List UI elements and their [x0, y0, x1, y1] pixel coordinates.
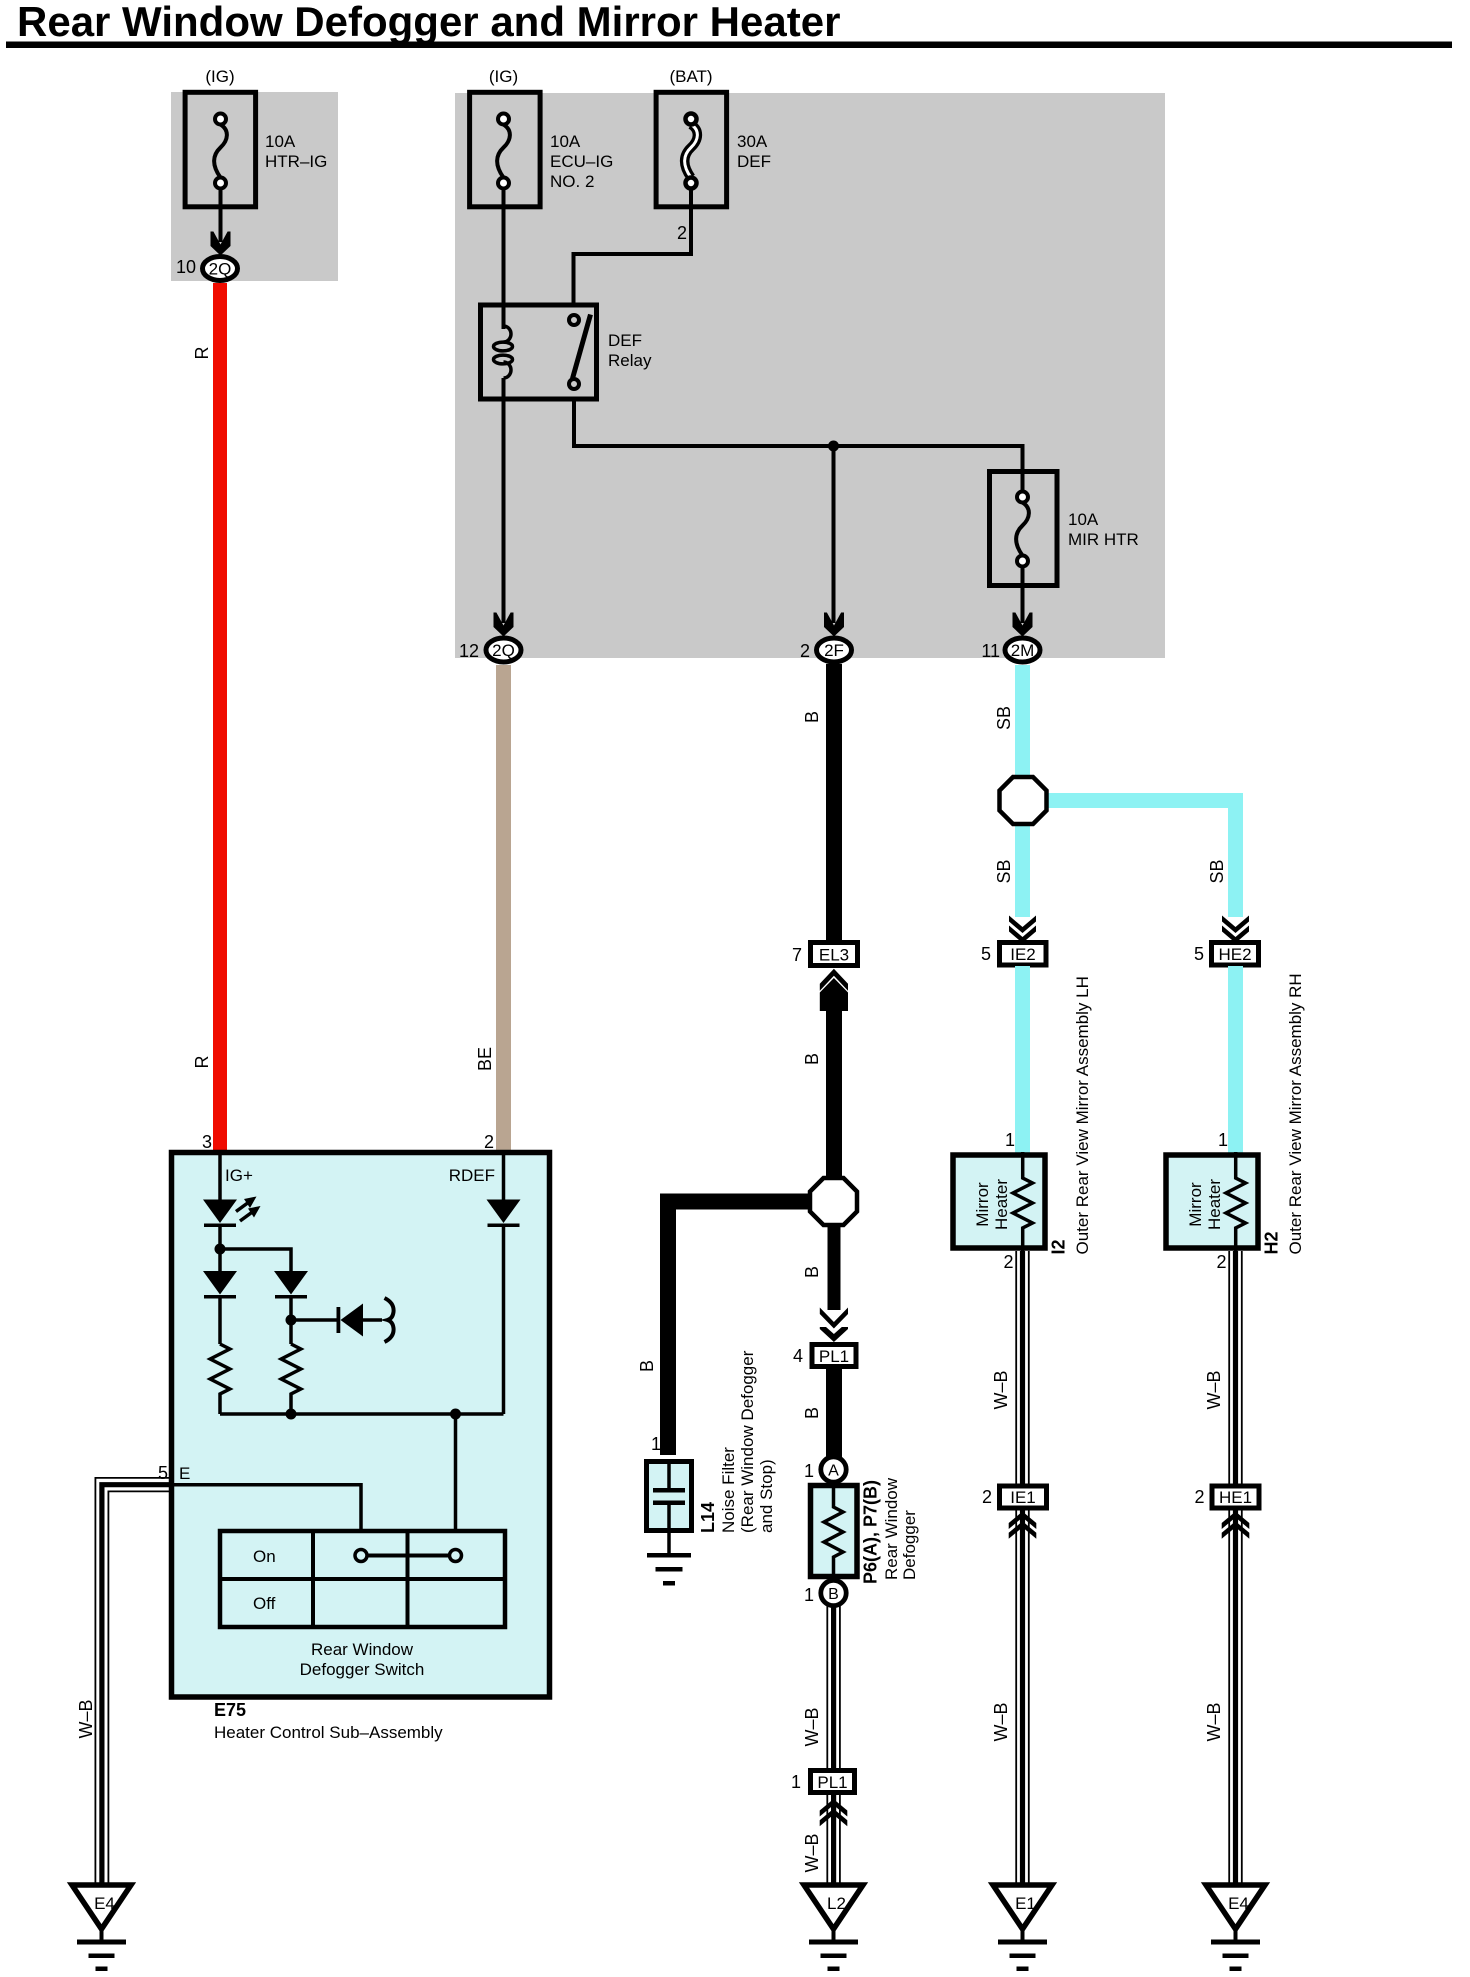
label Rear Window Defogger Switch: [300, 1640, 425, 1679]
svg-text:Defogger: Defogger: [900, 1510, 919, 1580]
svg-text:IE2: IE2: [1010, 945, 1036, 964]
svg-text:SB: SB: [1207, 859, 1227, 883]
wire W-B mirror RH to HE1: [1229, 1251, 1242, 1484]
svg-text:HE1: HE1: [1219, 1488, 1252, 1507]
label E75: [214, 1700, 246, 1720]
svg-text:10A: 10A: [550, 132, 581, 151]
svg-text:4: 4: [793, 1346, 803, 1366]
svg-text:Rear Window: Rear Window: [311, 1640, 414, 1659]
noise filter L14 box: [647, 1459, 692, 1533]
svg-text:I2: I2: [1049, 1239, 1069, 1254]
svg-text:Rear Window Defogger and Mirro: Rear Window Defogger and Mirror Heater: [17, 0, 840, 45]
svg-text:1: 1: [1005, 1130, 1015, 1150]
svg-text:E: E: [179, 1464, 190, 1483]
label SB (above HE2): [1207, 859, 1227, 883]
svg-text:Heater: Heater: [992, 1179, 1011, 1230]
svg-text:E4: E4: [1228, 1894, 1249, 1913]
fuse 30A DEF: [656, 67, 771, 207]
svg-text:B: B: [802, 1407, 822, 1419]
svg-text:SB: SB: [994, 706, 1014, 730]
svg-text:W–B: W–B: [991, 1370, 1011, 1409]
wire relay switch to bus: [574, 401, 1023, 469]
svg-text:Off: Off: [253, 1594, 276, 1613]
svg-text:E1: E1: [1015, 1894, 1036, 1913]
svg-text:RDEF: RDEF: [449, 1166, 495, 1185]
svg-text:2: 2: [484, 1132, 494, 1152]
svg-text:L2: L2: [827, 1894, 846, 1913]
connector PL1 pin 1: [791, 1771, 855, 1793]
label Noise Filter rotated: [719, 1350, 776, 1533]
svg-text:10A: 10A: [265, 132, 296, 151]
svg-text:BE: BE: [475, 1047, 495, 1071]
wire SB IE2 to mirror heater LH: [1005, 966, 1030, 1153]
ground E1: [993, 1885, 1052, 1971]
ground E4 left: [72, 1885, 131, 1971]
svg-text:(Rear Window Defogger: (Rear Window Defogger: [738, 1350, 757, 1533]
junction dot at 2F branch: [828, 441, 839, 452]
heater control E75 box: [172, 1153, 550, 1698]
label L14 rotated: [698, 1502, 718, 1533]
svg-text:2M: 2M: [1011, 641, 1035, 660]
wire SB 2M to splice: [1015, 665, 1030, 778]
label W-B (above E4 right): [1204, 1702, 1224, 1741]
diode 2: [203, 1271, 237, 1344]
svg-text:2: 2: [982, 1487, 992, 1507]
mirror heater LH box: [953, 1152, 1045, 1251]
svg-text:H2: H2: [1262, 1231, 1282, 1254]
label B (above splice): [802, 1053, 822, 1065]
pin 2 label mirror RH: [1216, 1252, 1226, 1272]
connector HE1 pin 2: [1194, 1486, 1259, 1508]
svg-text:On: On: [253, 1547, 276, 1566]
label W-B (above L2): [802, 1833, 822, 1872]
svg-text:(IG): (IG): [205, 67, 234, 86]
connector IE2 pin 5: [981, 943, 1046, 966]
svg-text:2F: 2F: [824, 641, 844, 660]
svg-text:2Q: 2Q: [209, 260, 232, 279]
arrow up below IE1: [1009, 1512, 1037, 1539]
svg-text:W–B: W–B: [1204, 1702, 1224, 1741]
pin 3 label E75: [202, 1132, 212, 1152]
connector 2Q pin 12: [459, 638, 521, 662]
svg-text:DEF: DEF: [737, 152, 771, 171]
label B (above terminal A): [802, 1407, 822, 1419]
wire W-B IE1 to ground E1: [1016, 1511, 1029, 1886]
svg-text:W–B: W–B: [1204, 1370, 1224, 1409]
svg-text:W–B: W–B: [991, 1702, 1011, 1741]
wire B thick splice to PL1: [828, 1225, 841, 1310]
arrow down into IE2: [1009, 916, 1036, 944]
label Rear Window Defogger rotated: [882, 1477, 919, 1580]
fuse 10A MIR HTR: [990, 469, 1139, 586]
svg-text:Outer Rear View Mirror Assembl: Outer Rear View Mirror Assembly RH: [1286, 973, 1305, 1254]
svg-text:Defogger Switch: Defogger Switch: [300, 1660, 425, 1679]
svg-text:ECU–IG: ECU–IG: [550, 152, 613, 171]
svg-text:1: 1: [1218, 1130, 1228, 1150]
wire B thick PL1 to terminal A: [826, 1369, 842, 1460]
fuse 10A ECU-IG NO.2: [470, 67, 614, 207]
label B (above EL3): [802, 711, 822, 723]
svg-text:3: 3: [202, 1132, 212, 1152]
label SB (above IE2): [994, 859, 1014, 883]
svg-text:30A: 30A: [737, 132, 768, 151]
wire ECU-IG fuse to relay coil: [502, 189, 506, 330]
svg-text:(BAT): (BAT): [669, 67, 712, 86]
svg-text:PL1: PL1: [819, 1347, 849, 1366]
svg-text:2Q: 2Q: [492, 641, 515, 660]
svg-text:5: 5: [981, 944, 991, 964]
svg-text:PL1: PL1: [817, 1773, 847, 1792]
label Outer Rear View Mirror Assembly LH: [1073, 976, 1092, 1254]
svg-text:NO. 2: NO. 2: [550, 172, 594, 191]
svg-text:W–B: W–B: [802, 1707, 822, 1746]
ground (noise filter): [647, 1533, 691, 1586]
switch table: [220, 1531, 505, 1627]
svg-text:10A: 10A: [1068, 510, 1099, 529]
svg-text:HTR–IG: HTR–IG: [265, 152, 327, 171]
label BE: [475, 1047, 495, 1071]
svg-text:1: 1: [804, 1461, 814, 1481]
svg-text:A: A: [828, 1463, 839, 1480]
title: [6, 0, 1452, 48]
svg-text:1: 1: [791, 1772, 801, 1792]
junction block shade big: [455, 93, 1165, 658]
svg-text:1: 1: [651, 1434, 661, 1454]
wire R (red): [213, 283, 227, 1153]
svg-text:(IG): (IG): [489, 67, 518, 86]
connector HE2 pin 5: [1194, 943, 1259, 966]
ground L2: [804, 1885, 863, 1971]
svg-text:P6(A), P7(B): P6(A), P7(B): [861, 1480, 881, 1584]
svg-text:MIR HTR: MIR HTR: [1068, 530, 1139, 549]
wire relay coil to 2Q pin 12: [494, 378, 514, 637]
svg-text:IE1: IE1: [1010, 1488, 1036, 1507]
connector 2F pin 2: [800, 638, 852, 662]
svg-text:Outer Rear View Mirror Assembl: Outer Rear View Mirror Assembly LH: [1073, 976, 1092, 1254]
splice octagon (black wire): [810, 1178, 857, 1225]
resistor 1 (E75): [210, 1344, 230, 1414]
wire W-B E75 to ground E4 left: [95, 1478, 171, 1885]
svg-text:1: 1: [804, 1585, 814, 1605]
svg-text:and Stop): and Stop): [757, 1459, 776, 1533]
resistor 2 (E75): [281, 1344, 301, 1414]
label P6(A), P7(B) rotated: [861, 1480, 881, 1584]
label R lower: [192, 1056, 212, 1069]
arrow up below PL1: [820, 1799, 848, 1826]
wire DEF fuse to relay: [574, 189, 692, 304]
pin 1 label L14: [651, 1434, 661, 1454]
svg-text:Mirror: Mirror: [973, 1182, 992, 1227]
wire W-B PL1 to ground L2: [827, 1795, 840, 1885]
svg-text:12: 12: [459, 641, 479, 661]
connector 2Q pin 10: [176, 257, 238, 281]
connector EL3 pin 7: [792, 943, 858, 966]
wire fuse HTR-IG to 2Q: [211, 189, 231, 256]
label Outer Rear View Mirror Assembly RH: [1286, 973, 1305, 1254]
svg-text:E4: E4: [94, 1894, 115, 1913]
bottom rail E75: [220, 1409, 504, 1532]
pin E wire internal: [158, 1463, 361, 1531]
svg-text:E75: E75: [214, 1700, 246, 1720]
svg-text:11: 11: [981, 641, 1000, 661]
wire B thick 2F to EL3: [826, 664, 842, 940]
rear window defogger element P6/P7: [811, 1482, 858, 1581]
label I2 rotated: [1049, 1239, 1069, 1254]
svg-text:2: 2: [1003, 1252, 1013, 1272]
svg-text:Heater Control Sub–Assembly: Heater Control Sub–Assembly: [214, 1723, 443, 1742]
junction dot diode 3: [286, 1315, 338, 1326]
svg-text:SB: SB: [994, 859, 1014, 883]
svg-text:5: 5: [1194, 944, 1204, 964]
connector 2M pin 11: [981, 638, 1040, 662]
wire BE (beige): [496, 665, 511, 1153]
mirror heater RH box: [1166, 1152, 1258, 1251]
wire SB HE2 to mirror heater RH: [1218, 966, 1243, 1153]
junction dot LED: [215, 1244, 292, 1272]
ground E4 right: [1206, 1885, 1265, 1971]
svg-text:Rear Window: Rear Window: [882, 1477, 901, 1580]
label W-B (E75 ground): [76, 1699, 96, 1738]
svg-text:Heater: Heater: [1205, 1179, 1224, 1230]
svg-text:B: B: [802, 1266, 822, 1278]
arrow down into HE2: [1222, 916, 1249, 944]
wire W-B mirror LH to IE1: [1016, 1251, 1029, 1484]
svg-text:W–B: W–B: [76, 1699, 96, 1738]
arrow up below HE1: [1222, 1512, 1250, 1539]
label Heater Control Sub-Assembly: [214, 1723, 443, 1742]
svg-text:EL3: EL3: [819, 946, 849, 965]
label W-B (above PL1 lower): [802, 1707, 822, 1746]
svg-text:IG+: IG+: [225, 1166, 253, 1185]
diode 4 (horizontal with curve): [337, 1298, 394, 1342]
svg-text:B: B: [637, 1360, 657, 1372]
diode 3: [274, 1271, 308, 1344]
label W-B (above IE1): [991, 1370, 1011, 1409]
wire MIR HTR fuse to 2M: [1013, 567, 1033, 637]
wire W-B HE1 to ground E4: [1229, 1511, 1242, 1886]
relay DEF: [481, 305, 652, 399]
pin 2 label mirror LH: [1003, 1252, 1013, 1272]
svg-text:DEF: DEF: [608, 331, 642, 350]
connector IE1 pin 2: [982, 1486, 1047, 1508]
svg-text:B: B: [828, 1586, 839, 1603]
svg-text:2: 2: [1216, 1252, 1226, 1272]
label B (left branch): [637, 1360, 657, 1372]
wire B thick splice to noise filter: [668, 1202, 815, 1456]
arrow up into EL3: [820, 969, 848, 1011]
svg-text:7: 7: [792, 945, 802, 965]
svg-text:Noise Filter: Noise Filter: [719, 1447, 738, 1533]
terminal B: [804, 1580, 846, 1605]
svg-text:2: 2: [1194, 1487, 1204, 1507]
junction block shade small (left): [171, 92, 338, 281]
svg-text:R: R: [192, 1056, 212, 1069]
svg-text:B: B: [802, 711, 822, 723]
wire W-B terminal B to PL1: [827, 1605, 840, 1768]
arrow down into PL1: [820, 1308, 848, 1343]
svg-text:L14: L14: [698, 1502, 718, 1533]
label SB (above splice): [994, 706, 1014, 730]
svg-text:HE2: HE2: [1218, 945, 1251, 964]
label W-B (above E1): [991, 1702, 1011, 1741]
wire B thick EL3 to splice: [826, 1008, 842, 1182]
label W-B (above HE1): [1204, 1370, 1224, 1409]
svg-text:2: 2: [800, 641, 810, 661]
label B (above PL1): [802, 1266, 822, 1278]
svg-text:2: 2: [677, 223, 687, 243]
label H2 rotated: [1262, 1231, 1282, 1254]
pin 2 label E75: [484, 1132, 494, 1152]
connector PL1 pin 4: [793, 1345, 856, 1367]
svg-text:W–B: W–B: [802, 1833, 822, 1872]
svg-text:5: 5: [158, 1463, 168, 1483]
svg-text:10: 10: [176, 257, 196, 277]
terminal A: [804, 1457, 846, 1482]
svg-text:B: B: [802, 1053, 822, 1065]
wire dot to 2F: [824, 446, 844, 637]
RDEF diode: [487, 1152, 521, 1414]
svg-text:Relay: Relay: [608, 351, 652, 370]
LED (IG+): [203, 1152, 261, 1249]
splice octagon (SB wire): [1000, 777, 1244, 917]
svg-text:Mirror: Mirror: [1186, 1182, 1205, 1227]
fuse 10A HTR-IG: [185, 67, 327, 207]
svg-text:R: R: [192, 347, 212, 360]
pin 2 label of DEF fuse: [677, 223, 687, 243]
label R upper: [192, 347, 212, 360]
